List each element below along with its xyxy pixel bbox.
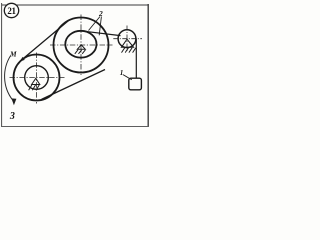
svg-text:M: M — [9, 50, 17, 59]
svg-text:1: 1 — [120, 69, 124, 77]
wheel 3 horizontal centerline — [10, 77, 66, 79]
wheel 3 support hatching — [29, 85, 40, 90]
weight 1 square — [129, 78, 142, 90]
moment M arrowhead — [11, 98, 16, 105]
belt upper tangent line — [21, 20, 70, 61]
frame top border — [2, 4, 149, 6]
wheel 3 inner circle — [25, 66, 49, 90]
svg-text:21: 21 — [7, 6, 16, 16]
wheel 2 support hatching — [75, 50, 86, 54]
wheel 3 outer circle — [14, 55, 60, 101]
wheel 2 pivot support triangle — [77, 45, 85, 50]
label 2 leader right — [99, 17, 101, 36]
wheel 2 outer circle — [54, 18, 109, 73]
frame bottom border — [2, 126, 149, 128]
frame right border — [147, 4, 149, 127]
belt direction arrowhead — [20, 57, 25, 62]
moment M arc arrow — [5, 56, 13, 101]
wheel 3 vertical centerline — [36, 53, 38, 104]
label 1 leader — [123, 75, 132, 80]
pulley support triangle — [121, 39, 133, 47]
label 2 leader left — [89, 17, 101, 31]
pulley support hatching — [122, 48, 136, 53]
wheel 2 horizontal centerline — [50, 44, 113, 46]
svg-text:2: 2 — [98, 9, 103, 18]
wheel 2 vertical centerline — [80, 15, 82, 76]
badge circle — [4, 3, 18, 17]
rope wheel2 to pulley — [84, 31, 121, 35]
frame left border — [1, 3, 3, 127]
wheel 3 pivot support triangle — [32, 78, 40, 84]
wheel 2 inner circle — [65, 31, 96, 58]
svg-text:3: 3 — [9, 111, 15, 122]
rope pulley to weight — [135, 39, 137, 79]
pulley circle — [118, 30, 136, 48]
belt lower tangent line — [42, 70, 106, 100]
pulley horizontal centerline — [113, 38, 142, 40]
pulley vertical centerline — [126, 26, 128, 53]
